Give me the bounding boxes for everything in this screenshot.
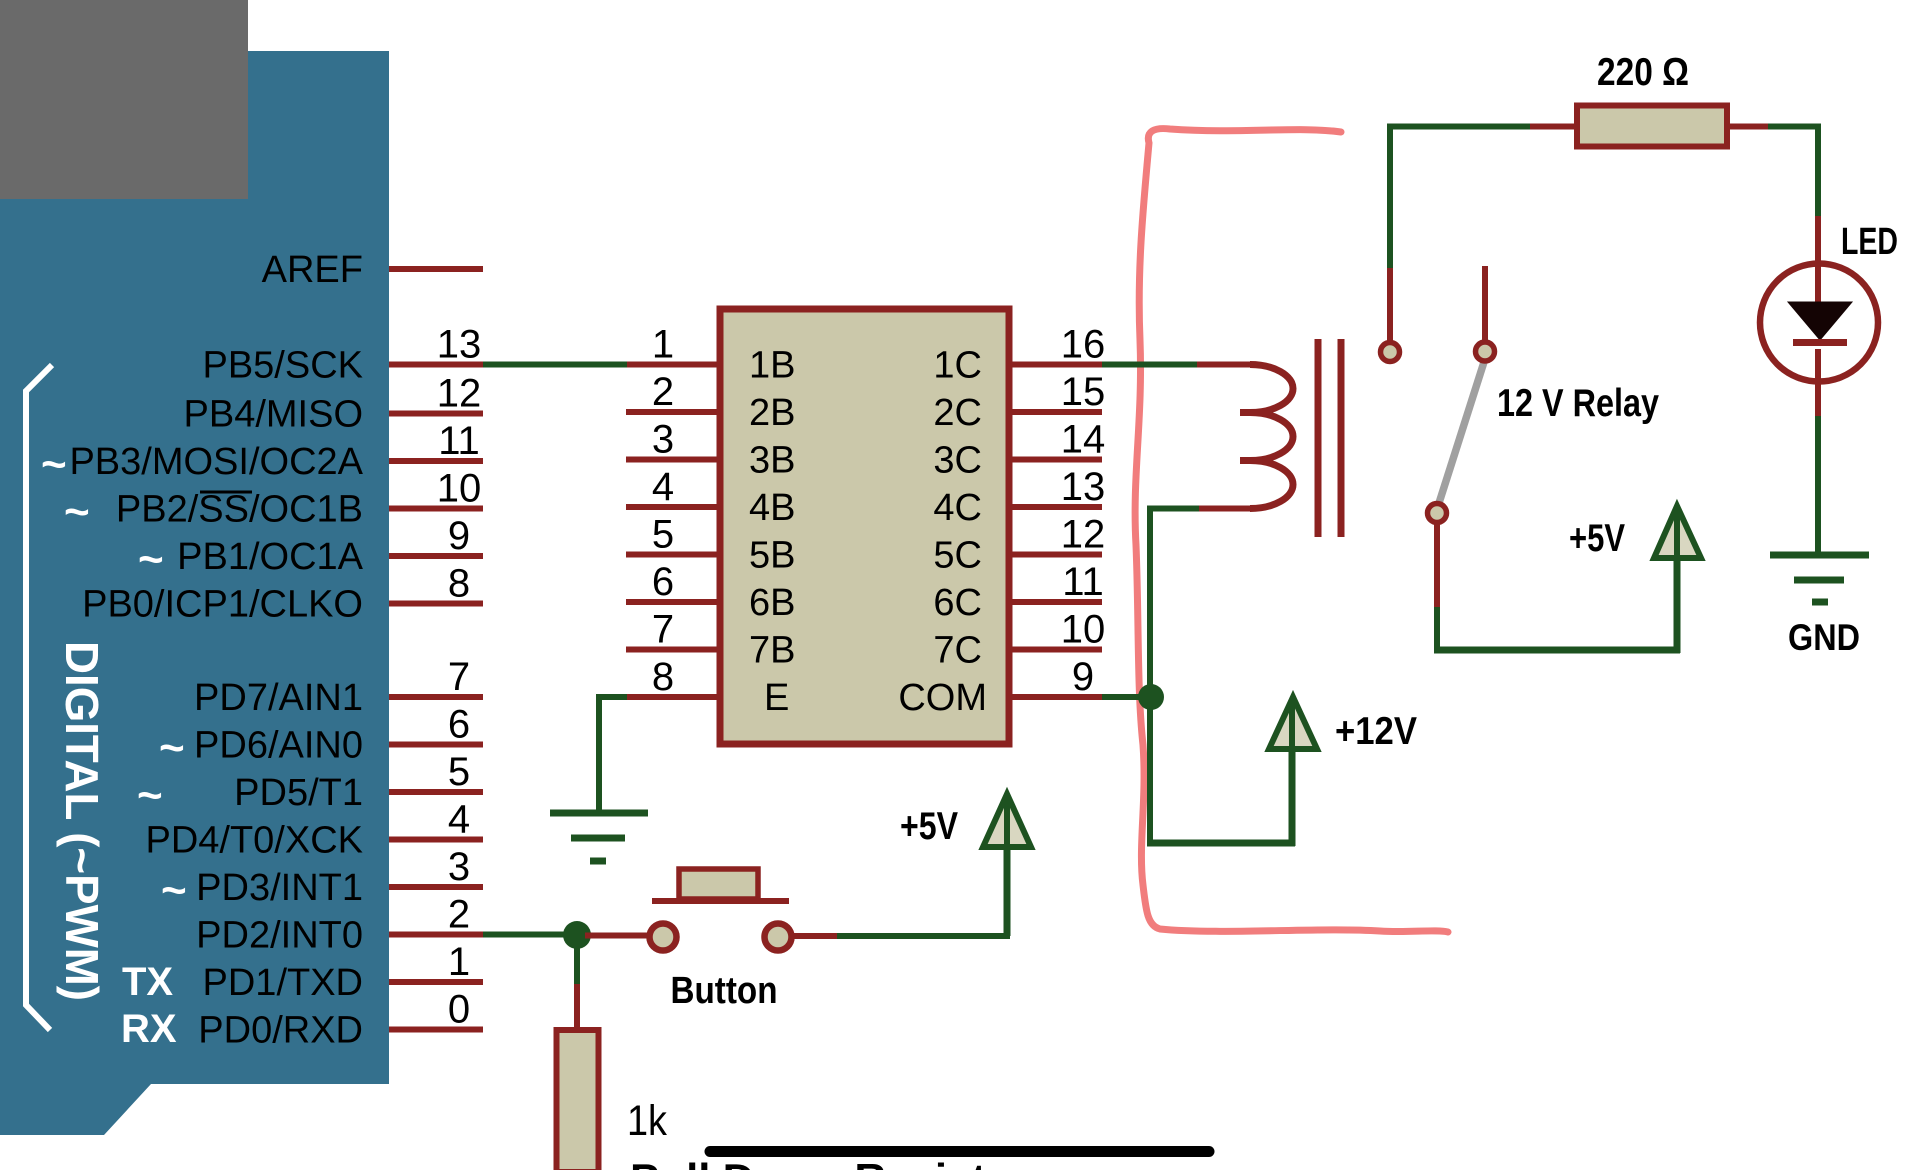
svg-text:9: 9 [448,514,470,558]
ground symbol at LED [1770,555,1869,602]
wire junction to 1k resistor [574,944,580,986]
svg-text:PD5/T1: PD5/T1 [234,772,363,814]
svg-text:3: 3 [448,845,470,889]
svg-text:2B: 2B [749,392,795,434]
svg-text:12: 12 [437,372,482,416]
USB connector block [0,0,248,199]
chip pin 9 (COM) [898,655,1102,719]
Arduino digital-side board body [0,51,389,1135]
svg-text:1: 1 [448,940,470,984]
svg-text:5C: 5C [933,535,982,577]
svg-text:COM: COM [898,677,987,719]
svg-text:PD4/T0/XCK: PD4/T0/XCK [145,820,363,862]
chip pin 7 (7B) [626,608,795,672]
svg-text:DIGITAL (~PWM): DIGITAL (~PWM) [56,641,108,1001]
svg-text:4C: 4C [933,487,982,529]
pin PD2/INT0 (2) [196,893,483,957]
resistor R1 220 ohm body [1577,106,1727,147]
chip pin 8 (E) [626,655,789,719]
relay RL1 coil [1250,365,1293,509]
pin PB4/MISO (12) [184,372,484,436]
wire button to +5V [792,933,839,939]
svg-text:7B: 7B [749,630,795,672]
svg-text:8: 8 [652,655,674,699]
svg-text:PB1/OC1A: PB1/OC1A [177,536,364,578]
pin PD7/AIN1 (7) [194,655,483,719]
svg-text:~: ~ [41,440,67,489]
wire LED to GND [1815,416,1821,556]
wire 220R to LED [1727,124,1770,130]
svg-text:~: ~ [137,771,163,820]
pin PD1/TXD (1) [203,940,483,1004]
wire PD2/INT0 to button [483,932,577,938]
svg-text:14: 14 [1061,418,1106,462]
junction node at COM/+12V [1138,684,1164,710]
svg-text:5B: 5B [749,535,795,577]
chip pin 13 (4C) [933,465,1105,529]
chip pin 12 (5C) [933,513,1105,577]
svg-text:12 V Relay: 12 V Relay [1497,382,1659,425]
pin PD5/T1 (5) [234,750,483,814]
svg-text:3C: 3C [933,440,982,482]
wire relay pole to 220R / top rail [1387,266,1393,342]
chip pin 16 (1C) [933,323,1105,387]
svg-text:PD1/TXD: PD1/TXD [203,962,363,1004]
relay contact terminal circles [1381,343,1400,362]
svg-text:7: 7 [448,655,470,699]
svg-text:PB3/MOSI/OC2A: PB3/MOSI/OC2A [69,441,363,483]
pin AREF [262,249,483,291]
svg-text:PD7/AIN1: PD7/AIN1 [194,677,363,719]
chip pin 10 (7C) [933,608,1105,672]
svg-text:1B: 1B [749,345,795,387]
svg-text:10: 10 [1061,608,1106,652]
relay contact: pole lead (NO terminal) [1482,266,1488,342]
svg-text:7: 7 [652,608,674,652]
svg-text:12: 12 [1061,513,1106,557]
svg-text:RX: RX [121,1007,177,1051]
svg-text:1C: 1C [933,345,982,387]
svg-text:GND: GND [1788,617,1860,658]
svg-text:10: 10 [437,467,482,511]
pin PB5/SCK (13) [202,323,483,387]
svg-text:PD6/AIN0: PD6/AIN0 [194,725,363,767]
wire chip 1C to relay coil [1102,362,1199,368]
svg-text:16: 16 [1061,323,1106,367]
svg-text:PD3/INT1: PD3/INT1 [196,867,363,909]
svg-text:1: 1 [652,323,674,367]
chip pin 15 (2C) [933,370,1105,434]
svg-text:~: ~ [64,488,90,537]
wire relay common to +5V [1434,524,1440,609]
chip pin 6 (6B) [626,560,795,624]
push button contacts [650,924,677,951]
svg-text:PD0/RXD: PD0/RXD [198,1010,363,1052]
svg-text:PB0/ICP1/CLKO: PB0/ICP1/CLKO [82,584,363,626]
svg-text:5: 5 [448,750,470,794]
chip pin 3 (3B) [626,418,795,482]
+5V power arrow (relay) [1654,506,1701,558]
LED D1 [1760,262,1878,418]
svg-text:PB5/SCK: PB5/SCK [202,345,363,387]
pin PB0/ICP1/CLKO (8) [82,562,483,626]
svg-text:2: 2 [448,893,470,937]
resistor R2 1k body [557,1030,599,1170]
relay core bars [1315,339,1322,537]
svg-text:9: 9 [1072,655,1094,699]
+5V power arrow (button) [983,794,1031,847]
svg-text:11: 11 [1062,560,1104,604]
svg-text:0: 0 [448,988,470,1032]
svg-text:~: ~ [161,866,187,915]
pin PD6/AIN0 (6) [194,703,483,767]
wire coil bottom to +12V rail [1197,506,1254,512]
ground symbol at chip E [550,813,648,861]
svg-text:+12V: +12V [1335,710,1417,753]
pin PB3/MOSI/OC2A (11) [69,419,483,483]
driver IC U1 body [720,309,1009,744]
chip pin 4 (4B) [626,465,795,529]
push button cap [679,869,758,899]
pin PD0/RXD (0) [198,988,483,1052]
svg-text:7C: 7C [933,630,982,672]
svg-text:PB4/MISO: PB4/MISO [184,394,364,436]
svg-text:15: 15 [1061,370,1106,414]
svg-text:Button: Button [671,970,778,1012]
svg-text:220 Ω: 220 Ω [1597,51,1689,94]
svg-text:6: 6 [448,703,470,747]
wire chip E (pin 8) to ground [596,694,627,700]
svg-text:4B: 4B [749,487,795,529]
svg-text:6B: 6B [749,582,795,624]
chip pin 2 (2B) [626,370,795,434]
chip pin 11 (6C) [933,560,1103,624]
svg-text:3B: 3B [749,440,795,482]
svg-text:AREF: AREF [262,249,363,291]
svg-text:~: ~ [138,535,164,584]
wire chip COM (pin 9) to +12V rail [1102,694,1162,700]
svg-text:11: 11 [438,419,480,463]
svg-text:8: 8 [448,562,470,606]
pink freehand highlight loop [1135,129,1448,932]
svg-text:~: ~ [159,724,185,773]
svg-text:2: 2 [652,370,674,414]
svg-text:5: 5 [652,513,674,557]
svg-text:Pull Down Resistor: Pull Down Resistor [630,1155,1030,1170]
svg-text:6C: 6C [933,582,982,624]
svg-text:PD2/INT0: PD2/INT0 [196,915,363,957]
svg-text:6: 6 [652,560,674,604]
pin PB1/OC1A (9) [177,514,483,578]
svg-text:3: 3 [652,418,674,462]
wire PB5/SCK to chip 1B [483,362,627,368]
svg-text:13: 13 [1061,465,1106,509]
svg-text:4: 4 [448,798,470,842]
chip pin 5 (5B) [626,513,795,577]
+12V power arrow [1269,697,1317,749]
svg-text:TX: TX [122,960,173,1004]
relay armature [1439,362,1484,503]
pin PD3/INT1 (3) [196,845,483,909]
svg-text:13: 13 [437,323,482,367]
svg-text:4: 4 [652,465,674,509]
chip pin 14 (3C) [933,418,1105,482]
black marker underline [710,1146,1209,1157]
svg-text:PB2/SS/OC1B: PB2/SS/OC1B [116,489,363,531]
svg-text:+5V: +5V [900,805,958,848]
pin PD4/T0/XCK (4) [145,798,483,862]
chip pin 1 (1B) [626,323,795,387]
pin PB2/SS/OC1B (10) [116,467,483,531]
svg-text:E: E [764,677,789,719]
white bracket marking digital pins [26,365,52,1030]
svg-text:1k: 1k [627,1097,667,1145]
svg-text:LED: LED [1841,221,1898,263]
svg-text:+5V: +5V [1569,517,1625,560]
svg-text:2C: 2C [933,392,982,434]
junction node at button/1k [563,921,591,949]
